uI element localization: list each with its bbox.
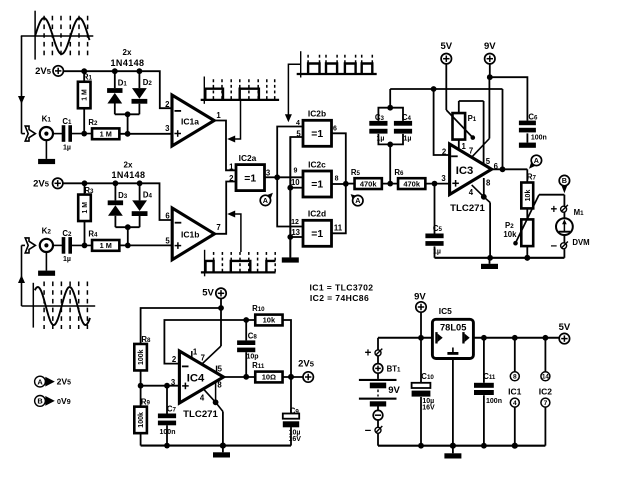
svg-text:K2: K2 [42, 227, 52, 236]
svg-text:3: 3 [165, 124, 170, 133]
svg-text:IC5: IC5 [439, 306, 452, 316]
svg-text:IC1: IC1 [508, 386, 522, 396]
svg-text:100k: 100k [138, 349, 145, 365]
svg-text:7: 7 [216, 223, 220, 232]
svg-text:IC2b: IC2b [308, 109, 326, 119]
svg-text:3: 3 [266, 169, 271, 178]
svg-text:470k: 470k [403, 179, 421, 188]
svg-text:5V: 5V [202, 287, 214, 298]
svg-text:=1: =1 [311, 129, 323, 140]
svg-text:1µ: 1µ [404, 135, 412, 142]
svg-text:2: 2 [229, 174, 234, 183]
svg-text:R4: R4 [88, 230, 98, 239]
svg-text:5V: 5V [440, 41, 452, 52]
svg-text:R3: R3 [84, 186, 94, 195]
svg-text:9V: 9V [414, 292, 426, 303]
svg-text:R7: R7 [527, 172, 537, 181]
svg-text:10: 10 [291, 178, 300, 187]
svg-text:1 M: 1 M [100, 241, 112, 250]
svg-text:1 M: 1 M [100, 129, 112, 138]
svg-text:R11: R11 [252, 361, 265, 370]
svg-text:4: 4 [469, 188, 474, 197]
svg-text:=1: =1 [311, 180, 323, 191]
svg-text:10k: 10k [525, 190, 532, 202]
svg-text:11: 11 [334, 224, 343, 233]
svg-text:78L05: 78L05 [440, 323, 466, 333]
svg-text:5: 5 [218, 364, 223, 373]
svg-text:IC2c: IC2c [308, 159, 326, 169]
svg-text:1: 1 [229, 163, 234, 172]
svg-text:1µ: 1µ [63, 256, 71, 263]
svg-text:1: 1 [462, 142, 467, 151]
svg-text:100n: 100n [531, 135, 547, 142]
svg-text:2: 2 [442, 148, 447, 157]
svg-text:D1: D1 [118, 78, 128, 87]
svg-text:1µ: 1µ [433, 249, 441, 256]
svg-text:5: 5 [165, 237, 170, 246]
svg-text:P2: P2 [505, 221, 514, 230]
svg-text:C7: C7 [167, 405, 177, 414]
svg-text:IC1 = TLC3702: IC1 = TLC3702 [310, 283, 374, 293]
svg-text:–: – [551, 240, 558, 252]
svg-text:C9: C9 [290, 407, 300, 416]
svg-text:100n: 100n [486, 398, 502, 405]
svg-text:4: 4 [200, 394, 205, 403]
svg-text:10Ω: 10Ω [262, 373, 276, 382]
svg-text:100k: 100k [138, 412, 145, 428]
svg-text:C5: C5 [433, 224, 443, 233]
svg-text:DVM: DVM [572, 238, 589, 247]
svg-text:2: 2 [165, 100, 170, 109]
svg-text:TLC271: TLC271 [450, 203, 485, 214]
svg-text:C10: C10 [421, 372, 434, 381]
svg-text:8: 8 [335, 175, 339, 182]
svg-text:2V5: 2V5 [35, 66, 52, 77]
svg-text:+: + [550, 204, 557, 216]
svg-text:BT1: BT1 [387, 364, 401, 373]
svg-text:2x: 2x [124, 161, 133, 170]
svg-text:IC4: IC4 [187, 373, 205, 385]
svg-text:C11: C11 [483, 372, 496, 381]
svg-text:R2: R2 [88, 118, 98, 127]
svg-text:1N4148: 1N4148 [111, 58, 145, 68]
svg-text:IC2 = 74HC86: IC2 = 74HC86 [310, 293, 369, 303]
svg-text:C2: C2 [62, 229, 72, 238]
svg-text:1 M: 1 M [82, 202, 89, 214]
svg-text:R1: R1 [83, 72, 93, 81]
svg-text:5: 5 [296, 129, 301, 138]
svg-text:C1: C1 [62, 117, 72, 126]
svg-text:6: 6 [165, 212, 170, 221]
svg-text:3: 3 [441, 174, 446, 183]
svg-text:10k: 10k [263, 316, 276, 325]
svg-text:1N4148: 1N4148 [112, 170, 146, 180]
svg-text:IC1a: IC1a [181, 116, 199, 126]
svg-text:D4: D4 [143, 190, 153, 199]
svg-text:7: 7 [544, 400, 548, 407]
svg-text:2x: 2x [123, 48, 132, 57]
svg-text:A: A [37, 377, 43, 386]
svg-text:5V: 5V [559, 322, 571, 333]
svg-text:16V: 16V [288, 436, 301, 443]
svg-text:470k: 470k [360, 179, 378, 188]
svg-text:12: 12 [291, 219, 299, 226]
svg-text:IC1b: IC1b [181, 229, 199, 239]
svg-text:100n: 100n [160, 429, 176, 436]
svg-text:A: A [263, 196, 268, 205]
svg-text:2V5: 2V5 [33, 178, 50, 189]
svg-text:13: 13 [291, 228, 300, 237]
svg-text:16V: 16V [422, 405, 435, 412]
svg-text:4: 4 [513, 400, 517, 407]
svg-text:A: A [355, 196, 360, 205]
svg-text:R6: R6 [394, 168, 404, 177]
svg-text:8: 8 [513, 374, 517, 381]
svg-text:=1: =1 [311, 229, 323, 240]
svg-text:10k: 10k [503, 230, 517, 239]
svg-text:B: B [37, 397, 42, 406]
svg-text:9: 9 [294, 168, 298, 175]
svg-text:R8: R8 [141, 335, 151, 344]
svg-text:1: 1 [193, 347, 198, 356]
svg-text:1 M: 1 M [82, 89, 89, 101]
svg-text:R10: R10 [252, 304, 265, 313]
svg-text:=1: =1 [244, 173, 256, 184]
svg-text:D3: D3 [118, 191, 128, 200]
svg-text:5: 5 [486, 157, 491, 166]
svg-text:D2: D2 [143, 78, 153, 87]
svg-text:8: 8 [486, 179, 491, 188]
svg-text:2V5: 2V5 [298, 359, 315, 370]
svg-text:IC2d: IC2d [308, 209, 326, 219]
svg-text:A: A [534, 156, 539, 165]
svg-text:C8: C8 [248, 332, 258, 341]
svg-text:R9: R9 [141, 398, 151, 407]
svg-text:7: 7 [201, 354, 205, 363]
svg-text:8: 8 [217, 381, 222, 390]
svg-text:9V: 9V [484, 41, 496, 52]
svg-text:K1: K1 [42, 115, 52, 124]
svg-text:14: 14 [542, 374, 549, 381]
svg-text:TLC271: TLC271 [183, 409, 218, 420]
svg-text:IC2: IC2 [539, 386, 553, 396]
svg-text:1µ: 1µ [377, 135, 385, 142]
svg-text:1: 1 [216, 111, 221, 120]
svg-text:C3: C3 [375, 113, 385, 122]
svg-text:C4: C4 [402, 113, 412, 122]
svg-text:P1: P1 [468, 114, 477, 123]
svg-text:1µ: 1µ [63, 144, 71, 151]
svg-text:–: – [365, 425, 372, 437]
svg-text:7: 7 [469, 147, 473, 156]
svg-text:0V9: 0V9 [57, 396, 71, 406]
svg-text:C6: C6 [528, 112, 538, 121]
svg-text:IC2a: IC2a [239, 153, 257, 163]
svg-text:+: + [365, 347, 372, 359]
svg-text:B: B [562, 176, 567, 185]
svg-text:M1: M1 [574, 208, 585, 217]
svg-text:2: 2 [172, 355, 177, 364]
svg-text:6: 6 [333, 126, 337, 133]
svg-text:4: 4 [296, 120, 300, 127]
svg-text:10p: 10p [246, 353, 258, 360]
svg-text:9V: 9V [388, 385, 400, 396]
svg-text:IC3: IC3 [456, 165, 474, 177]
svg-text:R5: R5 [351, 168, 361, 177]
